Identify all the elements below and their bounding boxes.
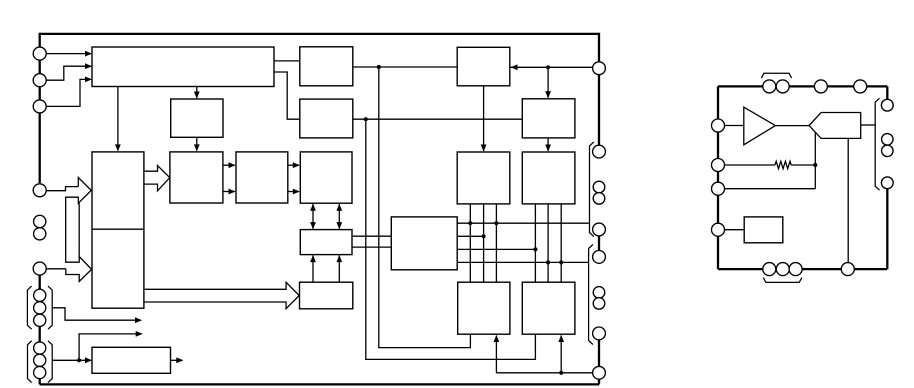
arrowhead up into B10 bottom (left) [310,204,316,211]
pin TP3 [814,80,827,93]
pin BP2 (triple) [776,263,789,276]
wire vertical V1 from junction to B18 bottom [366,119,536,359]
block B12 [391,217,457,270]
wire B13 to B11 left [312,255,314,282]
wire outer border right segment top (through pins) [598,33,600,152]
arrowhead B16 output [176,357,183,363]
arrowhead into B14 top [481,145,487,152]
wire pin P5 into fork [46,268,66,270]
pin R8 (pair) [593,298,605,310]
block B16 [92,347,171,373]
pin P2 [33,74,46,87]
wire B11 to B12 upper [352,235,391,237]
arrowhead free end G1 [135,317,142,323]
bus arrow fork head into B7 upper [66,178,92,282]
wire line A from B12 to bracket BR1 [457,222,589,224]
arrowhead free end branch [136,331,143,337]
pin P3 [33,100,46,113]
pin group G1 pin c [34,314,46,326]
arrowhead into B5 right [511,64,518,70]
wire outer border top [40,33,599,35]
wire pin LP2 to resistor [724,164,775,166]
wire left pin column segment group2-to-border [39,373,41,385]
wire B14 pin 3 down [495,204,497,282]
wire branch up to free arrow [79,334,142,360]
pin LP1 [712,119,725,132]
pin NC lower [34,228,46,240]
pin NC upper [34,215,46,227]
wire up into B17 bottom [495,336,497,373]
wire outer border right segment mid [598,230,600,257]
block B8 [170,152,223,203]
node junction on G2 wire [77,358,81,362]
bracket group G2 right [48,341,52,383]
wire outer border bottom [40,383,599,385]
wire resistor to junction [791,164,815,166]
wire B1 bottom to B2 top [196,87,198,99]
pin P4 [33,184,46,197]
arrowhead into B7 top [115,144,121,151]
pin P1 [33,47,46,60]
bracket pin group BR3 [875,98,879,190]
wire pin R10 to B17/B18 bottoms [496,372,593,374]
pin RP4 [881,177,893,189]
bracket pin group BR2 [589,245,593,345]
wire junction up into B18 bottom [560,336,562,373]
node junction on B3-B5 wire [377,65,381,69]
block B17 [458,282,510,334]
pin TP2 (pair) [776,80,789,93]
arrowhead into B17 bottom [494,335,500,342]
wire B8 to B9 lower [223,191,235,193]
wire B15 pin 2 down [547,204,549,282]
wire B1 bottom to B7 top [117,87,119,151]
wire line D from B12 to bracket BR2 [457,261,588,263]
arrowhead into B18 bottom [558,335,564,342]
pin LP3 [712,182,725,195]
wire B1 right to B3 left [274,60,300,62]
bracket pin group BR1 [590,142,594,237]
wire left pin column segment pin5-to-group1 [39,269,41,296]
wire block B7 divider [92,228,144,230]
arrowhead into B1 middle input [85,63,92,69]
node junction at DAC feedback [813,163,817,167]
wire B3 right to B5 left [353,66,457,68]
wire pin LP3 feedback [724,188,815,190]
pin R10 [593,366,606,379]
wire right-chip border right upper [886,86,888,105]
wire B14 pin 2 down [483,204,485,282]
wire DAC output to bracket BR3 [861,124,876,126]
block B3 [300,47,353,86]
arrowhead into B1 bottom input [85,77,92,83]
wire op-amp output to DAC [775,125,809,127]
pin R7 (pair) [593,287,605,299]
wire left pin column segment group1-to-group2 [39,320,41,348]
pin R3 (pair) [593,181,605,193]
pin LP2 [712,159,725,172]
node junction D-2 [559,260,563,264]
wire vertical V2 from junction to B17 bottom [379,67,471,348]
node junction C-1 [533,247,537,251]
wire junction down to B6 top [547,67,549,98]
wire B9 to B10 upper [288,164,299,166]
bracket group G1 left [27,286,31,329]
bus arrow B7 to B13 [144,282,299,308]
pin R2 [593,145,606,158]
arrowhead down into B11 top (left) [310,222,316,229]
wire B4 right to B6 left [353,118,523,120]
wire DAC bottom to pin BP4 [847,138,849,263]
block B4 [300,99,353,138]
pin R4 (pair) [593,193,605,205]
arrowhead into B9 upper [229,162,236,168]
arrowhead into B2 top [194,92,200,99]
pin BP4 [841,263,854,276]
pin BP1 (triple) [763,263,776,276]
wire right-chip border left [717,86,719,269]
wire right-chip border top [718,85,887,87]
node junction on B4-B6 wire [364,117,368,121]
block B1 [92,47,274,87]
wire B6 bottom to B15 top [547,138,549,151]
arrowhead into B8 top [194,144,200,151]
wire B10-B11 double arrow right [338,204,340,229]
pin group G2 pin b [34,354,46,366]
pin group G2 pin c [34,366,46,378]
block B10 [300,152,352,203]
wire line C from B12 [457,248,535,250]
DAC symbol U1 [809,113,861,139]
arrowhead into B9 lower [229,189,236,195]
wire outer border left segment (through pins 1-4) [39,33,41,183]
wire line B from B12 [457,235,483,237]
pin group G1 pin b [34,302,46,314]
pin TP4 [854,80,867,93]
pin P5 [33,262,46,275]
wire B15 pin 3 down [560,204,562,282]
wire B10-B11 double arrow left [312,204,314,229]
op-amp A1 [744,107,776,145]
node junction A-1 [468,221,472,225]
block B13 [300,282,353,309]
bus arrow fork channel right side [78,203,80,256]
pin R1 [593,62,606,75]
arrowhead up into B11 bottom (left) [310,255,316,262]
arrowhead into B1 top input [85,51,92,57]
node junction A-2 [494,221,498,225]
arrowhead into B10 lower [293,189,300,195]
node junction B-1 [482,234,486,238]
bracket group G1 right [48,286,52,329]
wire B16 output [171,359,183,361]
wire right-chip border right lower [886,189,888,269]
block B14 [457,152,510,204]
arrowhead down into B11 top (right) [336,222,342,229]
wire B14 pin 1 down [469,204,471,282]
pin TP1 (pair) [763,80,776,93]
wire B15 pin 1 down [534,204,536,282]
wire pin LP1 to op-amp input [724,125,744,127]
wire B8 to B9 upper [223,164,235,166]
resistor R1 [775,161,791,168]
wire right-chip border bottom [718,268,887,270]
pin R5 [593,223,606,236]
pin RP1 [881,99,893,111]
bus arrow B7 to B8 [144,166,170,191]
block B2 [171,99,223,137]
wire pin R1 to B5 right [510,66,594,68]
wire B1 right to B4 left (jog) [274,72,300,119]
wire group G1 to free arrow [52,308,141,320]
pin R9 [593,327,606,340]
pin LP4 [712,223,725,236]
pin group G1 pin a [34,289,46,301]
block B15 [522,152,575,204]
wire DAC down through junction to LP3 wire [814,132,816,189]
arrowhead up into B10 bottom (right) [336,204,342,211]
arrowhead into B6 top [545,91,551,98]
pin BP3 (triple) [789,263,802,276]
pin R6 [593,251,606,264]
arrowhead up into B11 bottom (right) [336,255,342,262]
pin RP3 (pair) [882,145,894,157]
block B18 [522,282,575,334]
wire B13 to B11 right [338,255,340,282]
wire pin P1 to block B1 [46,53,91,55]
block B9 [236,152,288,203]
pin RP2 (pair) [882,134,894,146]
wire B2 bottom to B8 top [196,137,198,150]
block B7 [92,152,144,308]
wire pin LP4 to block REF [724,229,744,231]
wire group G2 to B16 [52,359,91,361]
wire pin P2 to block B1 (jog) [46,66,91,80]
pin group G2 pin a [34,342,46,354]
block REF [744,217,783,243]
node junction on R10 wire [559,371,563,375]
arrowhead into B15 top [545,145,551,152]
wire pin P4 into fork (step) [46,187,78,191]
block B6 [522,99,575,138]
arrowhead into B16 left [85,357,92,363]
wire outer border right segment bottom [598,333,600,384]
block B11 [300,230,352,255]
block B5 [457,47,510,86]
bracket top pin pair [761,73,791,78]
node junction on R1-B5 wire [546,65,550,69]
bracket group G2 left [28,341,32,383]
wire B11 to B12 lower [352,246,391,248]
wire pin P3 to block B1 (jog) [46,79,91,106]
wire B5 bottom to B14 top [483,86,485,151]
arrowhead into B10 upper [293,162,300,168]
node junction D-1 [546,260,550,264]
bracket bottom pin triple [763,278,802,283]
wire B9 to B10 lower [288,191,299,193]
